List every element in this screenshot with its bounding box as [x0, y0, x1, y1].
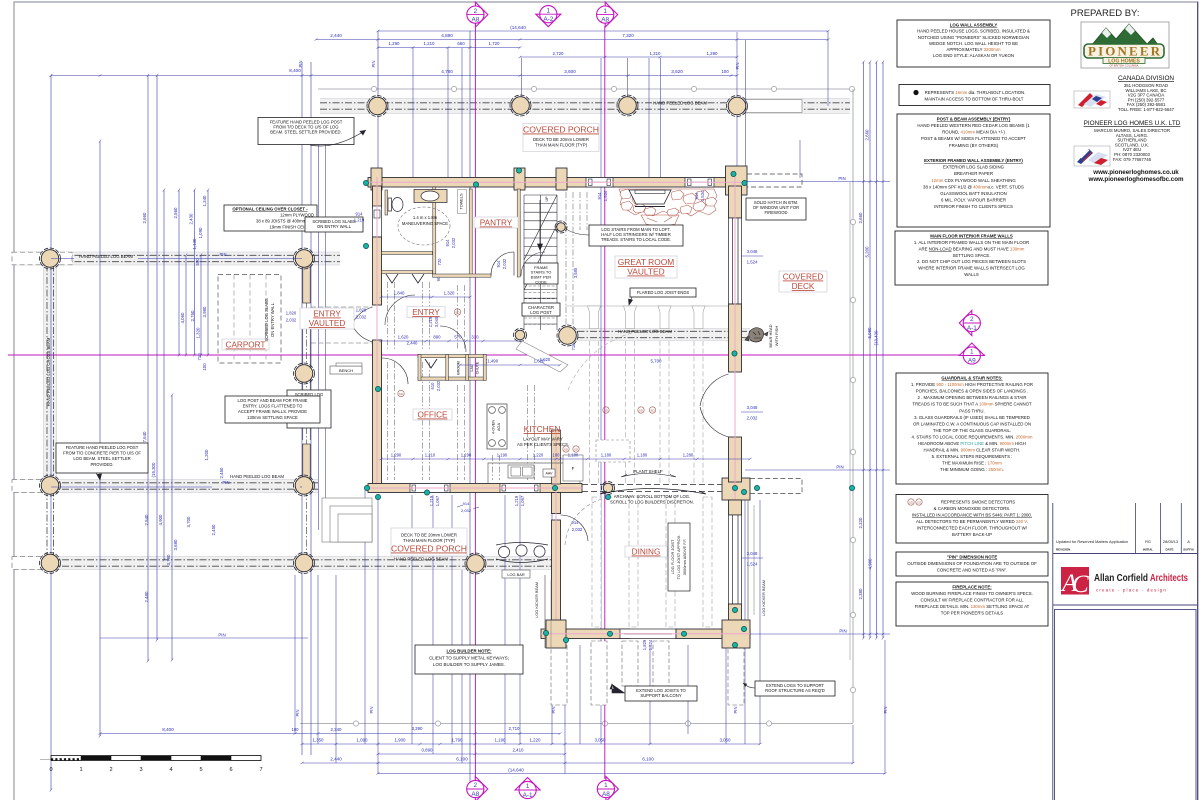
svg-text:HEADROOM ABOVE PITCH LINE & MI: HEADROOM ABOVE PITCH LINE & MIN. 900mm H…	[918, 441, 1026, 446]
pantry door arc	[491, 252, 514, 276]
svg-text:ARCHWAY. SCROLL BOTTOM OF LOG.: ARCHWAY. SCROLL BOTTOM OF LOG.	[614, 494, 690, 499]
svg-text:5: 5	[199, 767, 202, 773]
svg-text:3,600: 3,600	[564, 69, 576, 74]
svg-text:2,032: 2,032	[461, 508, 472, 513]
room label COVERED DECK	[779, 271, 827, 292]
grid line vertical A8-1	[604, 26, 606, 779]
svg-text:4,900: 4,900	[868, 558, 873, 570]
svg-text:1,524: 1,524	[747, 260, 758, 265]
long vertical dimension lines left	[50, 76, 52, 791]
svg-text:CHUTE: CHUTE	[476, 361, 480, 374]
entry door opening left wall	[352, 307, 373, 324]
svg-text:2,710: 2,710	[509, 726, 521, 731]
posts at wall junctions	[602, 482, 615, 495]
svg-text:710: 710	[197, 353, 202, 361]
svg-text:4,900: 4,900	[158, 514, 163, 526]
title block table	[1052, 503, 1054, 800]
svg-text:660: 660	[457, 41, 465, 46]
svg-text:OUTSIDE DIMENSIONS OF FOUNDATI: OUTSIDE DIMENSIONS OF FOUNDATION ARE TO …	[907, 561, 1037, 566]
svg-text:LOG BEAM. STEEL SETTLER: LOG BEAM. STEEL SETTLER	[73, 456, 130, 461]
svg-text:BROOM: BROOM	[457, 361, 461, 375]
svg-text:1,190: 1,190	[461, 453, 472, 458]
right wall tall window	[729, 218, 742, 304]
svg-text:310: 310	[471, 335, 479, 340]
svg-text:1: 1	[604, 782, 608, 789]
empty drawing box	[1055, 610, 1197, 800]
svg-text:914: 914	[463, 501, 470, 506]
svg-text:SUFFIX: SUFFIX	[1183, 548, 1194, 552]
note log builder	[415, 645, 523, 674]
svg-text:5,200: 5,200	[865, 246, 870, 258]
svg-text:Allan Corfield: Allan Corfield	[1094, 572, 1148, 584]
room label OFFICE	[413, 409, 452, 420]
svg-text:Architects: Architects	[1150, 572, 1188, 584]
note optional ceiling	[224, 205, 317, 231]
svg-text:1,620: 1,620	[398, 335, 409, 340]
note main floor interior frame walls	[895, 231, 1048, 285]
grid line horizontal A9	[8, 354, 985, 356]
svg-text:& CARBON MONOXIDE DETECTORS.: & CARBON MONOXIDE DETECTORS.	[934, 506, 1011, 511]
covered porch log beam	[12, 557, 556, 570]
frame stairs treads (bsmt)	[524, 286, 557, 324]
post at grid A8 top wall	[514, 168, 525, 190]
svg-text:ACCEPT FRAME WALLS. PROVIDE: ACCEPT FRAME WALLS. PROVIDE	[238, 409, 307, 414]
svg-text:TOP PER PIONEER'S DETAILS: TOP PER PIONEER'S DETAILS	[941, 611, 1003, 616]
svg-text:FRAMING (BY OTHERS): FRAMING (BY OTHERS)	[949, 143, 999, 148]
svg-text:1,320: 1,320	[196, 327, 201, 339]
svg-text:1,829: 1,829	[642, 639, 647, 650]
svg-text:PIN: PIN	[733, 707, 738, 714]
right margin vertical dim lines	[863, 62, 865, 638]
svg-text:LOG BUILDER TO SUPPLY JAMBS.: LOG BUILDER TO SUPPLY JAMBS.	[433, 662, 505, 667]
svg-text:0,890: 0,890	[422, 748, 434, 753]
note feature post bottom-left	[56, 443, 148, 473]
svg-text:REPRESENTS SMOKE DETECTORS: REPRESENTS SMOKE DETECTORS	[941, 500, 1015, 505]
svg-text:1,290: 1,290	[389, 41, 401, 46]
svg-text:7: 7	[259, 767, 262, 773]
svg-text:4: 4	[169, 767, 172, 773]
kitchen east wall	[552, 430, 561, 484]
svg-text:4-OVEN: 4-OVEN	[492, 420, 496, 434]
svg-text:1,219: 1,219	[514, 495, 519, 506]
svg-text:3,050: 3,050	[720, 738, 732, 743]
svg-text:3,580: 3,580	[573, 267, 578, 278]
south-right corner post	[722, 478, 750, 500]
svg-text:1,180: 1,180	[637, 453, 648, 458]
right deck edge	[852, 89, 854, 723]
note scribed log slabs (upper)	[305, 217, 363, 232]
svg-text:PIONEER: PIONEER	[1088, 44, 1161, 59]
svg-text:3,050: 3,050	[595, 738, 607, 743]
carport dashed outline	[218, 275, 281, 364]
svg-text:3000mm ABOVE F.F.: 3000mm ABOVE F.F.	[682, 539, 687, 576]
svg-text:590: 590	[195, 258, 200, 266]
svg-text:GLASSWOOL BATT INSULATION: GLASSWOOL BATT INSULATION	[940, 191, 1006, 196]
svg-text:SCROLL TO LOG BUILDERS DISCRET: SCROLL TO LOG BUILDERS DISCRETION.	[610, 500, 694, 505]
svg-text:2,410: 2,410	[513, 748, 525, 753]
svg-text:AGA: AGA	[497, 423, 501, 431]
dining south wall	[541, 629, 630, 639]
room label COVERED PORCH bottom	[391, 528, 467, 556]
svg-text:2: 2	[970, 316, 974, 323]
carport west edge dash-dot	[306, 252, 308, 568]
svg-text:CLIENT TO SUPPLY METAL KEYWAYS: CLIENT TO SUPPLY METAL KEYWAYS;	[429, 656, 509, 661]
entry closet door arc	[382, 358, 408, 384]
svg-text:FROM T/O CONCRETE PIER TO U/S: FROM T/O CONCRETE PIER TO U/S OF	[63, 451, 141, 456]
svg-text:TO LOG JOIST APPROX.: TO LOG JOIST APPROX.	[676, 535, 681, 580]
kitchen counter	[488, 463, 580, 483]
note flared log joist ends	[630, 288, 696, 297]
svg-text:2,032: 2,032	[356, 315, 367, 320]
svg-text:1,320: 1,320	[444, 291, 455, 296]
note frame stairs	[524, 263, 558, 284]
PIN lines right	[745, 181, 890, 183]
svg-text:1,200: 1,200	[204, 449, 209, 461]
svg-text:TOWELS: TOWELS	[460, 193, 464, 209]
svg-text:8,400: 8,400	[162, 727, 174, 732]
svg-text:1: 1	[547, 7, 551, 14]
note guardrail & stair notes	[896, 373, 1048, 484]
svg-text:FIREPLACE DETAILS. MIN. 130mm: FIREPLACE DETAILS. MIN. 130mm SETTLING S…	[915, 604, 1030, 609]
svg-text:THAN MAIN FLOOR (TYP): THAN MAIN FLOOR (TYP)	[535, 143, 588, 148]
svg-text:1,524: 1,524	[747, 562, 758, 567]
svg-text:DECK TO BE 20mm LOWER: DECK TO BE 20mm LOWER	[401, 533, 457, 538]
log kicker beams	[544, 575, 546, 648]
svg-text:DATE: DATE	[1166, 548, 1174, 552]
svg-text:SUPPORT BALCONY: SUPPORT BALCONY	[640, 693, 681, 698]
svg-text:5,080: 5,080	[867, 327, 872, 339]
svg-text:1,090: 1,090	[198, 227, 203, 239]
svg-text:WHERE INTERIOR FRAME WALLS IN: WHERE INTERIOR FRAME WALLS INTERSECT LOG	[918, 266, 1025, 271]
canada flags	[1074, 91, 1110, 108]
svg-text:1,290: 1,290	[391, 453, 402, 458]
svg-text:A-1: A-1	[967, 325, 977, 332]
svg-text:3,048: 3,048	[747, 249, 758, 254]
svg-text:WEDGE NOTCH. LOG WALL HEIGHT: WEDGE NOTCH. LOG WALL HEIGHT TO BE	[929, 41, 1018, 46]
svg-text:PASS THRU.: PASS THRU.	[959, 408, 984, 413]
svg-text:WITH FISH: WITH FISH	[774, 326, 779, 347]
svg-text:1,220: 1,220	[530, 738, 542, 743]
svg-text:Updated for Reserved Matters A: Updated for Reserved Matters Application	[1056, 539, 1128, 544]
svg-text:INTERCONNECTED EACH FLOOR. THR: INTERCONNECTED EACH FLOOR. THROUGHOUT W/	[917, 526, 1028, 531]
PIN lines on left beams	[51, 258, 74, 260]
room label DINING	[625, 546, 667, 557]
svg-text:VAULTED: VAULTED	[627, 267, 664, 277]
top dimension rows	[378, 30, 828, 32]
svg-text:A-2: A-2	[543, 16, 553, 23]
svg-text:UP: UP	[545, 196, 549, 202]
svg-text:create - place - design: create - place - design	[1096, 588, 1167, 593]
svg-text:7,320: 7,320	[622, 33, 634, 38]
svg-text:2,032: 2,032	[436, 380, 441, 391]
toilet	[388, 198, 392, 211]
entry steps	[322, 498, 372, 542]
hall south wall with door notches	[382, 271, 433, 274]
svg-text:RG: RG	[1145, 539, 1151, 544]
svg-text:AS PER CLIENTS SPECS.: AS PER CLIENTS SPECS.	[517, 442, 569, 447]
room label ENTRY	[407, 307, 445, 318]
svg-text:HAND PEELED LOG BEAM: HAND PEELED LOG BEAM	[618, 329, 672, 334]
svg-text:3,620: 3,620	[671, 69, 683, 74]
svg-text:2,440: 2,440	[330, 33, 342, 38]
svg-text:1,840: 1,840	[394, 291, 405, 296]
top-right corner post	[726, 166, 748, 195]
svg-text:(1,490: (1,490	[486, 359, 499, 364]
svg-text:WOOD BURNING FIREPLACE FINISH: WOOD BURNING FIREPLACE FINISH TO OWNER'S…	[911, 591, 1033, 596]
svg-text:LOG BAR: LOG BAR	[507, 572, 524, 577]
character log post circles	[555, 221, 567, 233]
stair diagonals	[524, 195, 557, 260]
svg-text:www.pioneerloghomesofbc.com: www.pioneerloghomesofbc.com	[1088, 176, 1184, 183]
svg-text:HAND PEELED LOG BEAM: HAND PEELED LOG BEAM	[394, 557, 448, 562]
svg-text:4,880: 4,880	[441, 33, 453, 38]
dining corner posts	[546, 620, 566, 648]
svg-text:2,032: 2,032	[572, 527, 583, 532]
svg-text:LOG FLOOR JOIST: LOG FLOOR JOIST	[670, 539, 675, 574]
note smoke detectors	[896, 495, 1048, 544]
svg-text:LOG KICKER BEAM: LOG KICKER BEAM	[534, 582, 539, 618]
room label ENTRY VAULTED	[300, 308, 354, 329]
svg-text:LOG BUILDER NOTE:: LOG BUILDER NOTE:	[446, 649, 492, 654]
island dashed	[596, 440, 630, 462]
svg-text:2 . MAXIMUM OPENING BETWEEN R: 2 . MAXIMUM OPENING BETWEEN RAILINGS & S…	[917, 395, 1026, 400]
scale bar	[40, 759, 51, 761]
svg-text:1,790: 1,790	[452, 738, 464, 743]
vertical lines dropping to bottom dims	[364, 490, 366, 744]
svg-text:ENTRY: ENTRY	[412, 308, 440, 317]
svg-text:BEAM. STEEL SETTLER PROVIDED.: BEAM. STEEL SETTLER PROVIDED.	[270, 130, 342, 135]
svg-text:2,450: 2,450	[211, 524, 216, 536]
svg-text:TOLL FREE: 1-877-822-5647: TOLL FREE: 1-877-822-5647	[1118, 107, 1175, 112]
svg-text:PIN: PIN	[551, 707, 556, 714]
svg-text:INITIAL: INITIAL	[1143, 548, 1154, 552]
svg-text:3,390: 3,390	[412, 726, 424, 731]
pantry west wall	[469, 189, 472, 277]
svg-text:GUARDRAIL & STAIR NOTES:: GUARDRAIL & STAIR NOTES:	[941, 376, 1003, 381]
svg-text:1: 1	[603, 8, 607, 15]
svg-text:1: 1	[79, 767, 82, 773]
svg-text:SCRIBED LOG SLABS: SCRIBED LOG SLABS	[264, 298, 269, 341]
maneuvering space ellipse	[398, 207, 450, 245]
room label PANTRY	[474, 217, 518, 228]
svg-text:ON ENTRY WALL: ON ENTRY WALL	[317, 224, 352, 229]
svg-text:www.pioneerloghomes.co.uk: www.pioneerloghomes.co.uk	[1092, 169, 1179, 176]
office door V	[425, 359, 437, 368]
svg-text:ROOF STRUCTURE AS REQ'D: ROOF STRUCTURE AS REQ'D	[765, 688, 825, 693]
mid-left vertical dim lines	[178, 190, 180, 355]
svg-text:MAIN FLOOR INTERIOR FRAME WALL: MAIN FLOOR INTERIOR FRAME WALLS	[930, 234, 1013, 239]
svg-text:BEAR HEAD: BEAR HEAD	[768, 324, 773, 347]
svg-text:3,980: 3,980	[202, 306, 207, 318]
svg-text:2,380: 2,380	[858, 588, 863, 600]
svg-text:TREADS IS TO BE SUCH THAT A 10: TREADS IS TO BE SUCH THAT A 100mm SPHERE…	[912, 402, 1032, 407]
svg-text:PIN: PIN	[735, 63, 740, 70]
svg-text:PIN: PIN	[371, 61, 376, 68]
svg-text:CONCRETE AND NOTED AS "PIN".: CONCRETE AND NOTED AS "PIN".	[937, 567, 1007, 572]
svg-text:FIREPLACE NOTE:: FIREPLACE NOTE:	[952, 585, 992, 590]
top porch roof edge	[318, 88, 853, 90]
left log beam row 2	[12, 480, 318, 493]
svg-text:1,280: 1,280	[683, 453, 694, 458]
entry hall door arc	[385, 295, 415, 325]
pioneer log homes logo	[1081, 22, 1169, 68]
svg-text:1,180: 1,180	[568, 453, 579, 458]
svg-text:GREAT ROOM: GREAT ROOM	[618, 257, 674, 267]
svg-text:1,290: 1,290	[707, 51, 719, 56]
svg-text:A8: A8	[602, 791, 610, 798]
svg-text:VAULTED: VAULTED	[309, 319, 346, 328]
pantry south wall	[433, 274, 492, 277]
svg-text:2,760: 2,760	[190, 310, 195, 322]
svg-text:2,450: 2,450	[219, 467, 224, 479]
svg-text:1,720: 1,720	[489, 41, 501, 46]
dashed beam left ends	[12, 252, 72, 265]
top hand peeled log beam strip	[320, 99, 850, 114]
bottom balcony edge	[300, 723, 853, 725]
svg-text:HAND PEELED LOG BEAM: HAND PEELED LOG BEAM	[79, 254, 133, 259]
svg-text:100: 100	[553, 453, 561, 458]
svg-text:PIN: PIN	[836, 465, 843, 470]
AGA oven	[487, 404, 507, 449]
pink centerline right wall	[734, 177, 736, 500]
svg-text:HAND PEELED LOG BEAM: HAND PEELED LOG BEAM	[653, 101, 707, 106]
svg-text:CANADA DIVISION: CANADA DIVISION	[1118, 75, 1174, 82]
svg-text:FIREWOOD: FIREWOOD	[764, 210, 787, 215]
svg-text:C: C	[1072, 571, 1089, 598]
towels label	[458, 190, 467, 214]
svg-text:(14,640: (14,640	[510, 25, 526, 30]
dashed swing arc dining	[565, 497, 612, 545]
svg-text:1,210: 1,210	[425, 453, 436, 458]
beam end rect above deck	[746, 100, 802, 113]
uk flags	[1074, 146, 1110, 166]
note pin dimension	[896, 552, 1048, 576]
svg-text:FLARED LOG JOIST ENDS: FLARED LOG JOIST ENDS	[637, 290, 689, 295]
svg-text:PIN: PIN	[369, 707, 374, 714]
dashed roof beam bottom-right	[750, 479, 802, 494]
svg-text:(13,430: (13,430	[874, 330, 879, 345]
grid bubbles top	[475, 2, 488, 27]
pink centerline bottom wall	[368, 487, 582, 489]
right exterior wall	[729, 186, 742, 218]
svg-text:90: 90	[436, 276, 441, 281]
svg-text:28/05/13: 28/05/13	[1163, 539, 1178, 544]
svg-text:A: A	[1187, 539, 1190, 544]
svg-text:LOG POST: LOG POST	[530, 310, 552, 315]
main stairs	[524, 195, 557, 330]
svg-text:2,032: 2,032	[747, 416, 758, 421]
svg-text:PIN: PIN	[295, 710, 300, 717]
svg-text:4. STAIRS TO LOCAL CODE REQUI: 4. STAIRS TO LOCAL CODE REQUIREMENTS. MI…	[912, 434, 1033, 439]
svg-text:1,340: 1,340	[202, 195, 207, 207]
svg-text:2: 2	[474, 782, 478, 789]
firebox	[629, 190, 671, 204]
svg-text:PORCHES, BALCONIES & OPEN SIDE: PORCHES, BALCONIES & OPEN SIDES OF LANDI…	[916, 389, 1028, 394]
svg-text:6 MIL. POLY. VAPOUR BARRIER: 6 MIL. POLY. VAPOUR BARRIER	[941, 197, 1006, 202]
dashed swing arc great room	[568, 330, 660, 390]
joist extensions below dining wall (balcony)	[551, 641, 567, 705]
svg-text:MAINTAIN ACCESS TO BOTTOM OF T: MAINTAIN ACCESS TO BOTTOM OF THRU-BOLT	[925, 97, 1024, 102]
note LOG WALL ASSEMBLY	[897, 20, 1050, 67]
svg-text:PIN: PIN	[838, 176, 845, 181]
carport entry wall stubs	[303, 267, 310, 303]
bath east partition	[433, 187, 436, 274]
grid bubbles bottom	[475, 777, 488, 800]
svg-text:THAN MAIN FLOOR (TYP): THAN MAIN FLOOR (TYP)	[403, 538, 456, 543]
svg-text:OR LAMINATED C.W. A CONTINUOUS: OR LAMINATED C.W. A CONTINUOUS CAP INSTA…	[913, 421, 1031, 426]
stair diagonal to kitchen	[516, 341, 568, 372]
svg-text:2,032: 2,032	[502, 258, 507, 269]
svg-text:PIN: PIN	[883, 707, 888, 714]
svg-text:BATTERY BACK-UP: BATTERY BACK-UP	[952, 532, 992, 537]
note log stairs	[589, 225, 683, 246]
svg-text:4,780: 4,780	[441, 69, 453, 74]
svg-text:2: 2	[109, 767, 112, 773]
svg-text:A-1: A-1	[523, 792, 533, 799]
svg-text:POST & BEAMS W/ SIDES FLATTENE: POST & BEAMS W/ SIDES FLATTENED TO ACCEP…	[921, 136, 1026, 141]
svg-text:2. DO NOT CHIP OUT LOG PIECES: 2. DO NOT CHIP OUT LOG PIECES BETWEEN SL…	[917, 259, 1026, 264]
note log floor joist dining	[668, 523, 690, 591]
svg-text:(14,640: (14,640	[508, 768, 524, 773]
dining west wall	[552, 493, 561, 514]
bottom wall windows	[410, 484, 450, 493]
svg-text:6: 6	[229, 767, 232, 773]
svg-text:ALL DETECTORS TO BE PERMANENTL: ALL DETECTORS TO BE PERMANENTLY WIRED 24…	[916, 519, 1028, 524]
svg-text:890: 890	[433, 335, 441, 340]
svg-text:BENCH: BENCH	[339, 368, 353, 373]
interior joist dash-dot line pairs	[387, 282, 389, 350]
svg-text:1,090: 1,090	[357, 738, 369, 743]
svg-text:COVERED: COVERED	[783, 273, 824, 282]
left wall window	[373, 206, 382, 237]
svg-text:0: 0	[49, 767, 52, 773]
svg-text:3,048: 3,048	[747, 405, 758, 410]
bath south wall	[382, 252, 433, 255]
svg-text:MANEUVERING SPACE: MANEUVERING SPACE	[402, 221, 448, 226]
svg-text:THE MAXIMUM RISE : 170mm: THE MAXIMUM RISE : 170mm	[942, 461, 1002, 466]
svg-text:1,219: 1,219	[429, 495, 434, 506]
note extend log joists	[625, 686, 697, 701]
svg-text:PIN: PIN	[223, 480, 230, 485]
svg-text:100: 100	[292, 727, 300, 732]
thru-bolt markers	[363, 180, 368, 185]
post at stair wall top	[556, 168, 567, 190]
great room hand peeled log beam	[565, 329, 750, 341]
entry porch dashed beam lines	[311, 306, 372, 308]
note solid hatch firewood	[746, 198, 806, 220]
room label GREAT ROOM VAULTED	[615, 256, 677, 278]
svg-text:1,900: 1,900	[395, 738, 407, 743]
svg-text:A8: A8	[471, 16, 479, 23]
svg-text:HAND PEELED HOUSE LOGS, SCRIBE: HAND PEELED HOUSE LOGS, SCRIBED, INSULAT…	[917, 29, 1030, 34]
svg-text:LOG KICKER BEAM: LOG KICKER BEAM	[761, 580, 766, 616]
svg-text:1: 1	[970, 349, 974, 356]
bottom dimension rows	[100, 733, 560, 735]
svg-text:ROUND, 410mm MEAN DIA +/-): ROUND, 410mm MEAN DIA +/-)	[942, 130, 1005, 135]
right wall door opening arcs	[700, 374, 729, 406]
svg-text:PIONEER LOG HOMES U.K. LTD: PIONEER LOG HOMES U.K. LTD	[1084, 120, 1181, 127]
svg-text:4,060: 4,060	[180, 312, 185, 324]
svg-text:WALLS: WALLS	[964, 272, 979, 277]
svg-text:100: 100	[721, 69, 729, 74]
closet walls south of entry	[418, 355, 486, 358]
svg-text:F: F	[572, 466, 575, 471]
svg-text:1,190: 1,190	[495, 738, 507, 743]
svg-text:ENTRY. LOGS FLATTENED TO: ENTRY. LOGS FLATTENED TO	[243, 404, 303, 409]
svg-text:720: 720	[437, 258, 442, 266]
allan corfield architects logo	[1053, 604, 1198, 606]
svg-text:OPTIONAL CEILING OVER CLOSET -: OPTIONAL CEILING OVER CLOSET -	[232, 207, 308, 212]
